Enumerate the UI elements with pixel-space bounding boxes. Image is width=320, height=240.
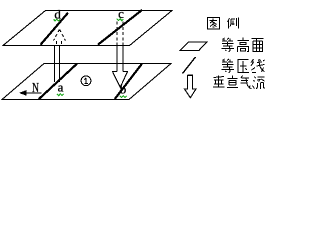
descending air current : hollow open arrowhead pointing down at b bbox=[113, 72, 128, 88]
green squiggle under b bbox=[120, 96, 127, 98]
legend text 垂直气流 bbox=[213, 76, 265, 89]
green squiggle under a bbox=[57, 94, 64, 96]
legend title 图例 (tu li) bbox=[207, 18, 238, 30]
ascending air current a to d : hidden dashed arrowhead behind upper plane bbox=[54, 30, 66, 46]
char 高 bbox=[238, 38, 250, 53]
green squiggle under c bbox=[117, 19, 124, 21]
circled number 1 bbox=[81, 76, 91, 86]
legend text 等高面 bbox=[222, 38, 264, 53]
legend icon: parallelogram (equal-height surface) bbox=[180, 42, 207, 51]
char 直 bbox=[227, 76, 238, 88]
green squiggle under d bbox=[54, 19, 61, 21]
isobar line upper-right (thick) bbox=[98, 10, 142, 45]
descending air current c to b : solid double shaft bbox=[116, 46, 118, 72]
char 等 bbox=[222, 38, 235, 52]
char 流 bbox=[253, 77, 266, 89]
descending air current c to b : hidden dashed double shaft behind upper plane bbox=[117, 22, 123, 46]
legend icon: slash (isobar) bbox=[183, 57, 196, 74]
lower isobaric plane (parallelogram) bbox=[2, 64, 171, 100]
legend text 等压线 bbox=[222, 59, 265, 73]
isobar line upper-left (thick) bbox=[41, 13, 69, 45]
upper isobaric plane (parallelogram) bbox=[3, 11, 172, 46]
svg-text:c: c bbox=[118, 6, 124, 21]
isobar line lower-right (thick) bbox=[115, 64, 142, 99]
svg-text:d: d bbox=[54, 6, 61, 21]
char 面 bbox=[252, 39, 264, 52]
char 等 bbox=[222, 59, 235, 73]
north arrow filled head pointing left bbox=[19, 90, 27, 96]
ascending air current a to d : solid double shaft bbox=[54, 46, 56, 82]
char 图 bbox=[207, 18, 219, 30]
legend icon: hollow down arrow (vertical air flow) bbox=[185, 75, 197, 98]
char 气 bbox=[241, 76, 252, 89]
char 线 bbox=[251, 59, 265, 73]
north arrow shaft bbox=[25, 92, 41, 94]
char 垂 bbox=[213, 76, 225, 88]
char 压 bbox=[238, 60, 250, 74]
isobar line lower-left (thick) bbox=[39, 64, 77, 99]
char 例 bbox=[228, 18, 239, 29]
